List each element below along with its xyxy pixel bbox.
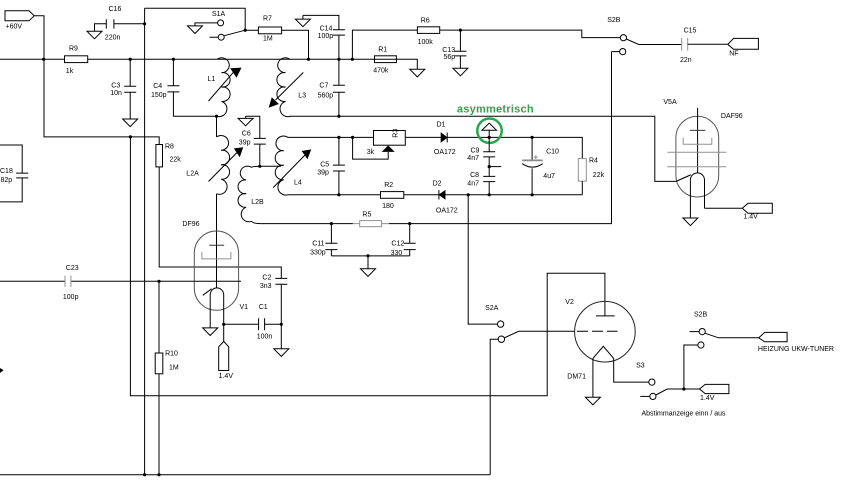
capacitor C8 [467, 172, 495, 195]
svg-text:DAF96: DAF96 [721, 113, 743, 120]
junction R6 branch on rail [351, 58, 354, 61]
tube V1 DF96 envelope [182, 221, 248, 311]
svg-text:470k: 470k [373, 67, 389, 74]
ground at C11/C12 [361, 269, 376, 277]
capacitor C6 [239, 116, 266, 166]
svg-text:R5: R5 [362, 212, 371, 219]
anode to grid3 line V1 [216, 245, 218, 287]
svg-text:S2B: S2B [607, 17, 621, 24]
svg-text:S2B: S2B [694, 311, 708, 318]
junction ground tap [366, 254, 369, 257]
resistor R7 [258, 16, 281, 43]
capacitor C15 [680, 28, 728, 64]
switch S2A [485, 305, 575, 475]
svg-text:R8: R8 [165, 144, 174, 151]
svg-text:1M: 1M [263, 36, 273, 43]
svg-text:220n: 220n [105, 35, 121, 42]
svg-text:R3: R3 [393, 129, 400, 138]
resistor R8 [156, 144, 181, 167]
svg-text:1.4V: 1.4V [743, 214, 758, 221]
junction S1A pole [244, 29, 247, 32]
resistor R4 [578, 158, 604, 195]
bottom bus wire [0, 474, 490, 476]
filament V2 [593, 346, 649, 397]
wire R6 to S2B [440, 30, 621, 37]
resistor R5 [353, 212, 389, 227]
antenna arrow node [482, 123, 497, 137]
wire wiper return [353, 137, 389, 159]
wire top feed to S1A [145, 8, 246, 30]
svg-text:C15: C15 [684, 28, 697, 35]
wire AF line D2 junction to S2A [468, 195, 497, 324]
svg-text:V2: V2 [565, 299, 574, 306]
svg-text:82p: 82p [1, 177, 13, 184]
wire cathode to C1 [224, 323, 259, 325]
svg-text:C7: C7 [319, 83, 328, 90]
junction C4 on rail [172, 58, 175, 61]
junction C1/C2 [280, 323, 283, 326]
connector 1.4V at V5A [742, 203, 772, 220]
junction C9/C8 tap stub [488, 165, 502, 168]
svg-text:R2: R2 [384, 182, 393, 189]
svg-text:C1: C1 [259, 304, 268, 311]
junction feed x=130.4 [129, 135, 132, 138]
svg-text:V5A: V5A [663, 99, 677, 106]
svg-text:S3: S3 [636, 363, 645, 370]
wire R8 to V1 grid1 and C2 [159, 167, 281, 279]
svg-text:22k: 22k [170, 157, 182, 164]
junction C3 on rail [129, 58, 132, 61]
svg-text:D2: D2 [433, 181, 442, 188]
svg-text:R4: R4 [589, 158, 598, 165]
edge mark cut arrow [0, 368, 4, 373]
junction C23 to R10 [157, 280, 160, 283]
svg-text:R6: R6 [421, 18, 430, 25]
svg-text:R9: R9 [69, 46, 78, 53]
green circle annotation [477, 119, 501, 143]
arrow of L4 [273, 149, 311, 187]
svg-text:L1: L1 [208, 76, 216, 83]
svg-text:1k: 1k [66, 68, 74, 75]
wire V1 grid2 row with C23 [0, 280, 241, 282]
svg-text:V1: V1 [240, 304, 249, 311]
svg-text:C5: C5 [320, 162, 329, 169]
junction C14/C7 on rail [337, 58, 340, 61]
ground at C6 [238, 116, 253, 126]
anode to grid3 line V5A [697, 130, 699, 173]
svg-text:1.4V: 1.4V [700, 395, 715, 402]
capacitor C11 [310, 224, 337, 257]
wire L4 top row y=137.4 [288, 136, 374, 138]
svg-text:22k: 22k [593, 172, 605, 179]
filament V1 [210, 288, 224, 328]
capacitor C5 [317, 137, 345, 194]
svg-text:150p: 150p [151, 92, 167, 99]
junction asym node [488, 136, 491, 139]
svg-text:C11: C11 [312, 241, 324, 248]
svg-text:56p: 56p [444, 54, 456, 61]
svg-text:3n3: 3n3 [260, 283, 272, 290]
filament slant V1 [203, 289, 212, 296]
svg-text:DM71: DM71 [567, 374, 586, 381]
capacitor C3 [110, 59, 136, 119]
junction C5 bottom [337, 193, 340, 196]
wire left vertical x=130.4 to anode box [130, 137, 605, 396]
svg-text:S2A: S2A [485, 305, 499, 312]
svg-text:OA172: OA172 [434, 149, 456, 156]
svg-text:asymmetrisch: asymmetrisch [457, 104, 534, 116]
switch S2B bottom [684, 311, 759, 389]
ground at V1 [203, 328, 218, 336]
capacitor C16 [95, 6, 145, 42]
resistor R1 [373, 46, 396, 74]
svg-text:S1A: S1A [212, 11, 226, 18]
svg-text:L2A: L2A [186, 170, 199, 177]
inductor L1 [208, 58, 231, 117]
svg-text:560p: 560p [318, 93, 334, 100]
svg-text:C12: C12 [391, 241, 404, 248]
svg-text:100p: 100p [63, 294, 79, 301]
wire long vertical bus x=144.6 [144, 8, 146, 475]
junction C7 bottom [337, 115, 340, 118]
junction C8 bottom [488, 193, 491, 196]
junction pot wiper return [351, 136, 354, 139]
svg-text:C9: C9 [471, 147, 480, 154]
junction C6/L2B/L4 tap [258, 165, 261, 168]
wiper arrow of R3 [382, 145, 395, 152]
svg-text:C2: C2 [262, 274, 271, 281]
capacitor C1 [257, 304, 282, 340]
switch S3 [636, 363, 699, 400]
svg-text:39p: 39p [239, 140, 251, 147]
svg-text:C23: C23 [66, 265, 79, 272]
junction +60V on rail [42, 58, 45, 61]
wire main B+ rail y=59.2 [0, 59, 417, 69]
junction bus x=144.6 [143, 473, 146, 476]
inductor L2B [238, 166, 264, 223]
svg-text:R7: R7 [263, 16, 272, 23]
svg-text:C10: C10 [546, 149, 559, 156]
connector +60V [5, 11, 44, 59]
junction C12 [408, 222, 411, 225]
svg-text:4u7: 4u7 [543, 173, 555, 180]
inductor L4 [275, 136, 302, 195]
junction C11 [330, 222, 333, 225]
grid cup V1 [202, 252, 231, 259]
svg-text:C4: C4 [153, 83, 162, 90]
junction C10 bottom [531, 193, 534, 196]
inductor L2A [186, 136, 229, 195]
svg-text:C8: C8 [470, 172, 479, 179]
svg-text:D1: D1 [437, 122, 446, 129]
wire to ground [367, 256, 369, 269]
capacitor C7 [318, 59, 345, 116]
capacitor C9 [467, 137, 495, 176]
anode plate V5A [690, 129, 705, 131]
wire rail to R6 [352, 30, 417, 59]
switch S1A [195, 11, 258, 40]
wire L2A to V1 anode [216, 194, 218, 246]
grid lines V5A [667, 152, 726, 167]
svg-text:NF: NF [729, 51, 738, 58]
wire L4 tap to C6 junction [260, 165, 281, 167]
svg-text:L2B: L2B [251, 199, 264, 206]
junction C16 to vertical [143, 22, 146, 25]
filament V5A [690, 173, 704, 218]
ground at C13 [453, 68, 468, 76]
resistor R9 [65, 46, 88, 75]
diode D1 OA172 [434, 122, 456, 156]
svg-text:10n: 10n [110, 90, 122, 97]
svg-text:R1: R1 [378, 46, 387, 53]
junction R7 on rail [307, 58, 310, 61]
arrow of L2A [209, 147, 244, 181]
anode lead V5A [697, 108, 699, 131]
anode plate V1 [209, 244, 224, 246]
svg-text:4n7: 4n7 [467, 155, 479, 162]
junction C10 top [531, 136, 534, 139]
wire C11-C12 common [331, 255, 409, 257]
svg-text:180: 180 [382, 203, 394, 210]
svg-text:22n: 22n [680, 57, 692, 64]
ground at C3 [123, 119, 138, 127]
grid dashes V2 [577, 330, 618, 332]
svg-text:1M: 1M [169, 365, 179, 372]
capacitor C18 [0, 145, 28, 202]
wire detector line L3 to V5A filament [290, 116, 691, 181]
potentiometer R3 3k [367, 129, 406, 156]
wire detector bottom row y=194.8 [288, 194, 583, 196]
wire AGC row y=223.6 from L2B [260, 52, 612, 224]
ground at C14 [295, 15, 310, 26]
svg-text:1.4V: 1.4V [219, 373, 234, 380]
resistor R6 [417, 18, 439, 47]
svg-text:HEIZUNG UKW-TUNER: HEIZUNG UKW-TUNER [758, 346, 834, 353]
wire R7 to rail [282, 30, 309, 59]
capacitor C4 [151, 59, 217, 116]
svg-text:C6: C6 [242, 131, 251, 138]
resistor R2 [381, 182, 404, 210]
svg-text:C16: C16 [109, 6, 122, 13]
svg-text:DF96: DF96 [182, 221, 199, 228]
filament slant V5A [676, 175, 691, 182]
capacitor C14 [303, 15, 345, 59]
arrow of L3 [269, 73, 304, 108]
inductor L3 [277, 58, 306, 117]
connector NF [728, 38, 759, 57]
wire pot to D1 [405, 136, 441, 138]
junction S2B heater tap [682, 387, 685, 390]
svg-text:R10: R10 [165, 351, 178, 358]
junction V1 cathode [222, 323, 225, 326]
svg-text:4n7: 4n7 [467, 181, 479, 188]
capacitor C13 [442, 30, 466, 68]
ground at C2/C1 [274, 349, 289, 357]
svg-text:39p: 39p [317, 169, 329, 176]
junction C5 top [337, 136, 340, 139]
svg-text:100p: 100p [318, 33, 334, 40]
ground at R1 right [410, 69, 425, 77]
svg-text:C14: C14 [320, 26, 333, 33]
diode D2 OA172 [433, 181, 458, 215]
svg-text:C13: C13 [442, 47, 455, 54]
junction bus x=159 [157, 473, 160, 476]
svg-text:OA172: OA172 [436, 207, 458, 214]
svg-text:L3: L3 [298, 93, 306, 100]
ground at C16 [87, 31, 102, 39]
svg-text:330p: 330p [310, 250, 326, 257]
capacitor C2 [260, 274, 287, 348]
svg-text:+60V: +60V [6, 23, 23, 30]
switch S2B top [607, 17, 682, 55]
grid cup V5A [683, 138, 712, 145]
svg-text:3k: 3k [367, 149, 375, 156]
wire D1 to R4 top [447, 137, 582, 158]
svg-text:C3: C3 [111, 82, 120, 89]
arrow of L1 [209, 68, 242, 101]
svg-text:100n: 100n [257, 333, 273, 340]
anode plate V2 [596, 315, 615, 317]
junction L1 bottom [215, 115, 218, 118]
tube V5A DAF96 envelope [663, 99, 742, 197]
junction C13 [459, 29, 462, 32]
resistor R10 [155, 281, 179, 474]
capacitor C10 electrolytic [522, 137, 559, 194]
capacitor C23 [63, 265, 79, 301]
connector 1.4V at V1 [219, 324, 234, 380]
wire V5A to 1.4V [705, 207, 743, 209]
tube V2 DM71 envelope [565, 299, 635, 381]
ground at V2 [585, 397, 600, 405]
ground at S1A [188, 26, 203, 34]
connector 1.4V at S3 [700, 384, 729, 402]
wire feed +60V down to R8 row [44, 59, 159, 144]
svg-text:100k: 100k [418, 39, 434, 46]
connector HEIZUNG UKW-TUNER [758, 332, 834, 353]
wire L1 to L2A [216, 116, 218, 137]
svg-text:L4: L4 [294, 180, 302, 187]
junction AF takeoff [467, 193, 470, 196]
capacitor C12 [391, 224, 416, 257]
ground at V5A [683, 218, 698, 226]
svg-text:Abstimmanzeige einn / aus: Abstimmanzeige einn / aus [642, 411, 727, 418]
svg-text:C18: C18 [0, 168, 13, 175]
